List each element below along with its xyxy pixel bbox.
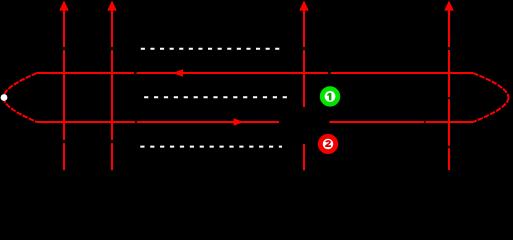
racetrack left cap xyxy=(4,73,38,98)
field line arrow 2 shaft xyxy=(111,10,113,170)
field line arrow 3 shaft xyxy=(303,10,305,170)
racetrack right cap xyxy=(473,73,509,98)
field line arrow 1 shaft xyxy=(63,10,65,170)
dashed guide line top xyxy=(141,48,280,50)
racetrack top straight xyxy=(37,72,473,74)
field line arrow 4 shaft xyxy=(448,10,450,170)
racetrack bottom straight xyxy=(37,121,473,123)
field line arrow 3 head xyxy=(299,1,309,11)
marker 2 (red) xyxy=(320,136,335,151)
field line arrow 2 head xyxy=(107,1,117,11)
field line arrow 4 head xyxy=(444,1,454,11)
marker 1 (green) xyxy=(322,89,338,105)
direction arrowhead on top straight (leftward) xyxy=(173,69,184,77)
field line arrow 1 head xyxy=(59,1,69,11)
start point white dot xyxy=(1,94,8,101)
dashed guide line middle xyxy=(144,96,287,98)
direction arrowhead on bottom straight (rightward) xyxy=(234,118,244,126)
dashed guide line bottom xyxy=(140,146,282,148)
